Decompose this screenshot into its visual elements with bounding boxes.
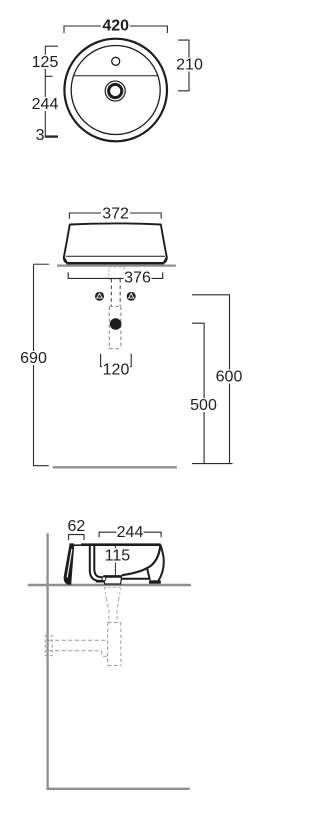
svg-text:120: 120: [103, 362, 130, 379]
left dim stack line: [45, 46, 58, 137]
wall flange of horizontal pipe (dashed): [45, 636, 52, 656]
trap body (dashed): [109, 307, 121, 349]
drain flange (side): [104, 576, 122, 584]
outer right wall and foot (side): [158, 545, 163, 581]
dim 125 label: [32, 54, 59, 71]
dim 690 vertical: [34, 264, 49, 465]
floor line (front): [53, 466, 177, 468]
dim 690 top tick: [34, 263, 49, 265]
basin bottom edge thick: [67, 262, 164, 264]
svg-text:372: 372: [102, 205, 129, 222]
dim 244 label: [117, 524, 144, 541]
svg-text:376: 376: [124, 270, 151, 287]
dim 690 label: [20, 350, 47, 367]
faucet hole: [112, 57, 120, 65]
rim section (cut) left: [64, 546, 75, 585]
dim 120 label: [102, 362, 130, 379]
svg-text:62: 62: [68, 518, 86, 535]
dim 115 line: [114, 546, 116, 576]
dim 420 label: [101, 17, 130, 34]
svg-text:115: 115: [105, 548, 131, 565]
overflow detail circle: [102, 577, 106, 581]
dim 372 label: [101, 205, 130, 222]
tailpipe taper (side, dashed): [106, 598, 119, 623]
dim 244 label: [32, 96, 59, 113]
basin inner rim circle: [71, 46, 160, 135]
waste outlet dot: [110, 318, 122, 330]
svg-text:500: 500: [190, 397, 217, 414]
svg-text:244: 244: [32, 96, 59, 113]
dim 120 bracket: [101, 354, 132, 367]
foot inner edge: [147, 567, 150, 580]
svg-text:3: 3: [36, 127, 45, 144]
dim 500 bracket: [192, 323, 233, 463]
svg-text:210: 210: [176, 57, 203, 74]
floor line (side): [47, 788, 190, 790]
svg-text:600: 600: [216, 369, 243, 386]
drain outer ring: [105, 81, 125, 101]
countertop line (front): [57, 264, 176, 266]
rim section white streak: [67, 549, 72, 578]
dim 62 bracket: [69, 535, 84, 540]
dim 600 label: [216, 369, 243, 386]
basin top edge (side): [69, 543, 160, 546]
dim 210 label: [176, 57, 203, 74]
dim 420 bracket: [64, 26, 167, 33]
tailpipe (dashed): [111, 279, 120, 306]
dim 244 bracket: [99, 532, 161, 537]
bowl left wall (side): [90, 546, 104, 581]
basin bottom crease: [66, 255, 165, 257]
trap body (side, dashed): [108, 623, 121, 666]
drain inner ring: [109, 84, 122, 97]
drain flange top thick: [104, 575, 122, 578]
water supply symbol right: [127, 292, 136, 301]
basin outer rim circle: [64, 39, 167, 142]
drain fitting under basin (dashed): [109, 267, 124, 279]
rear deck chord line: [74, 75, 158, 77]
rim edge notch: [74, 543, 81, 544]
horizontal waste pipe (dashed): [49, 640, 108, 656]
basin front profile: [64, 223, 167, 263]
svg-text:420: 420: [102, 17, 129, 34]
tail fitting below counter (side, dashed): [104, 588, 121, 599]
dim 376 bracket: [68, 272, 163, 278]
dim 210 bracket: [178, 40, 189, 91]
dim 372 bracket: [69, 213, 161, 219]
wall line: [46, 533, 48, 789]
svg-text:125: 125: [32, 54, 59, 71]
dim 500 label: [190, 397, 217, 414]
dim 115 label: [104, 548, 131, 565]
foot bottom: [149, 580, 161, 583]
bowl underside to foot: [121, 578, 150, 580]
countertop line (side): [28, 584, 191, 586]
water supply symbol left: [95, 292, 104, 301]
svg-text:244: 244: [117, 524, 144, 541]
basin bottom lip: [64, 257, 167, 263]
dim 600 bracket: [192, 295, 230, 464]
bowl interior curve (side): [122, 545, 161, 576]
svg-text:690: 690: [20, 350, 47, 367]
dim 376 label: [124, 270, 152, 287]
